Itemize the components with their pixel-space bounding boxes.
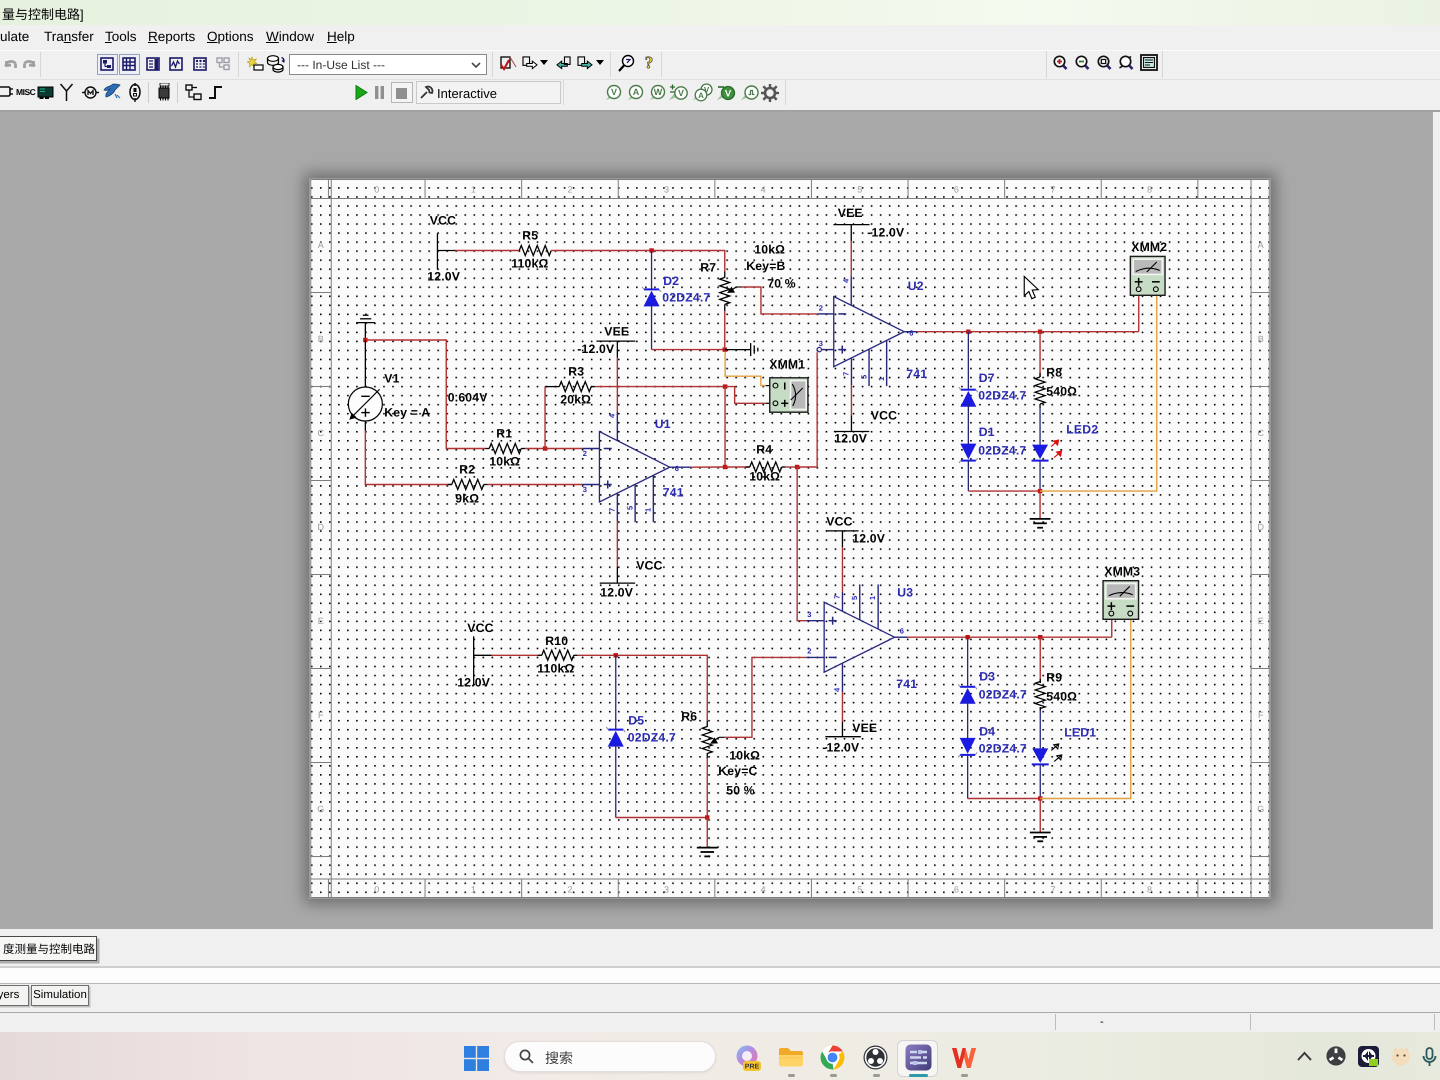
node J8 (D7 tap) [966, 330, 970, 334]
wire J5 down to J6 [724, 387, 726, 467]
svg-text:2: 2 [567, 185, 572, 195]
svg-text:V1: V1 [384, 371, 399, 385]
power VCC (R10 rail) [474, 636, 492, 685]
svg-text:5: 5 [625, 506, 634, 510]
svg-text:PRE: PRE [745, 1064, 760, 1071]
wire D1 to J10 rail [968, 490, 1040, 492]
svg-text:R6: R6 [681, 709, 697, 723]
power VCC (U3) [826, 531, 859, 547]
wire J5 to XMM1 plus [725, 387, 766, 404]
svg-text:VCC: VCC [871, 408, 897, 422]
wire U2 out rail [917, 331, 1139, 333]
svg-text:VCC: VCC [430, 213, 456, 227]
svg-text:F: F [318, 710, 324, 720]
svg-text:6: 6 [900, 627, 904, 636]
svg-text:D3: D3 [979, 669, 995, 683]
wire J10 to ground [1039, 491, 1041, 519]
svg-text:F: F [1258, 710, 1264, 720]
svg-text:02DZ4.7: 02DZ4.7 [979, 741, 1027, 755]
svg-text:3: 3 [664, 185, 669, 195]
wire D4 to J15 rail [968, 798, 1041, 800]
node J12 [705, 815, 709, 819]
svg-text:R5: R5 [522, 228, 538, 242]
source V1 [348, 340, 382, 431]
svg-text:1: 1 [643, 508, 652, 512]
svg-text:C: C [1258, 428, 1265, 438]
svg-text:1: 1 [471, 185, 476, 195]
wire VCC to U3 pin7 [841, 547, 843, 592]
resistor R1 [485, 444, 525, 454]
power VCC (U2) [834, 416, 869, 432]
wire R7 wiper to U2 pin2 [742, 287, 818, 314]
svg-text:C: C [318, 428, 325, 438]
power VCC (R5 rail) [437, 233, 455, 269]
svg-text:10kΩ: 10kΩ [754, 242, 785, 256]
svg-text:V: V [611, 87, 617, 97]
wire R10 to J11 and R6 [578, 655, 708, 721]
svg-text:110kΩ: 110kΩ [511, 256, 548, 270]
svg-text:8: 8 [1147, 185, 1152, 195]
zener diode D2 [642, 251, 661, 350]
svg-text:V: V [678, 88, 684, 98]
svg-text:7: 7 [841, 372, 850, 376]
svg-text:10kΩ: 10kΩ [489, 454, 520, 468]
svg-text:12.0V: 12.0V [427, 269, 461, 283]
svg-text:741: 741 [906, 367, 927, 381]
power VEE (U1) [596, 341, 635, 357]
svg-text:0.604V: 0.604V [448, 390, 488, 404]
node J13 (D3 tap) [965, 635, 969, 639]
svg-text:LED1: LED1 [1064, 725, 1096, 739]
node J15 [1038, 796, 1042, 800]
wire R1 to J2 [525, 448, 545, 450]
svg-text:12.0V: 12.0V [457, 675, 491, 689]
svg-text:D5: D5 [628, 713, 644, 727]
svg-text:E: E [1258, 616, 1264, 626]
svg-text:7: 7 [1050, 885, 1055, 895]
svg-text:2: 2 [819, 304, 823, 313]
svg-text:02DZ4.7: 02DZ4.7 [628, 730, 676, 744]
resistor R5 [519, 246, 551, 256]
potentiometer R6 [702, 721, 725, 758]
wire V1 to R2 [365, 431, 451, 485]
wire J2 to U1 pin2 [545, 448, 582, 450]
svg-text:R7: R7 [700, 260, 716, 274]
svg-text:Key=B: Key=B [746, 259, 785, 273]
op-amp U2 [817, 276, 917, 386]
svg-text:10kΩ: 10kΩ [749, 469, 780, 483]
wire J7 down to U3 pin3 [797, 467, 806, 621]
svg-text:D4: D4 [979, 724, 995, 738]
wire U3 out rail [908, 636, 1112, 638]
svg-text:7: 7 [1050, 185, 1055, 195]
svg-text:741: 741 [663, 485, 684, 499]
svg-text:540Ω: 540Ω [1046, 384, 1077, 398]
svg-text:70 %: 70 % [767, 276, 796, 290]
wire rail up to XMM2 plus [1138, 295, 1140, 331]
svg-text:12.0V: 12.0V [600, 585, 634, 599]
resistor R3 [545, 382, 595, 392]
svg-text:XMM2: XMM2 [1131, 240, 1167, 254]
wire VEE to U1 pin4 [616, 358, 618, 413]
zener diode D5 [606, 655, 625, 817]
wire R3 to J5 [595, 386, 725, 388]
svg-text:7: 7 [832, 595, 841, 599]
wire J7 to U2 pin3 [797, 352, 817, 467]
svg-text:VEE: VEE [852, 721, 877, 735]
svg-text:D1: D1 [979, 425, 995, 439]
zener diode D4 [958, 725, 977, 799]
potentiometer R7 [720, 272, 742, 312]
svg-text:W: W [654, 87, 663, 97]
resistor R4 [725, 462, 786, 472]
svg-text:12.0V: 12.0V [852, 531, 886, 545]
svg-text:1: 1 [868, 596, 877, 600]
wire J2 up to R3 [544, 387, 546, 449]
wire R6 bottom to J12 [706, 758, 708, 818]
wire R4 to J7 [786, 466, 797, 468]
svg-text:A: A [318, 240, 324, 250]
svg-text:A: A [633, 87, 640, 97]
op-amp U3 [806, 584, 908, 692]
op-amp U1 [582, 412, 691, 522]
ground GND4 (R6) [697, 847, 718, 849]
svg-text:A: A [1258, 240, 1264, 250]
resistor R8 [1035, 332, 1045, 408]
LED LED1 (off) [1032, 711, 1062, 799]
svg-text:2: 2 [567, 885, 572, 895]
wire U2 pin7 to VCC [850, 385, 852, 416]
svg-text:4: 4 [607, 413, 616, 418]
svg-text:U1: U1 [655, 417, 671, 431]
ground GND3 (U2 section) [1030, 518, 1051, 520]
svg-text:E: E [318, 616, 324, 626]
svg-text:A: A [698, 91, 704, 100]
node J11 (D5 tap) [614, 653, 618, 657]
svg-text:R9: R9 [1046, 670, 1062, 684]
wire R2 to U1 pin3 [488, 484, 582, 486]
node J4 (gnd junction) [723, 347, 727, 351]
resistor R9 [1035, 637, 1045, 711]
svg-text:VCC: VCC [467, 621, 493, 635]
svg-text:6: 6 [954, 885, 959, 895]
svg-text:Key=C: Key=C [718, 764, 757, 778]
svg-text:741: 741 [896, 677, 917, 691]
node J7 [795, 465, 799, 469]
node J1 (gnd/V1/wire junction) [363, 338, 367, 342]
svg-text:7: 7 [607, 508, 616, 512]
multimeter XMM3 [1103, 581, 1139, 620]
svg-text:D: D [318, 522, 325, 532]
svg-text:U2: U2 [908, 279, 924, 293]
node J14 (R9 tap) [1038, 635, 1042, 639]
svg-text:VEE: VEE [838, 206, 863, 220]
svg-text:4: 4 [832, 687, 841, 692]
svg-text:110kΩ: 110kΩ [537, 661, 574, 675]
svg-text:D2: D2 [663, 274, 679, 288]
wire U1 out to J6 [691, 466, 725, 468]
svg-text:9kΩ: 9kΩ [455, 491, 479, 505]
svg-text:4: 4 [761, 185, 766, 195]
svg-text:3: 3 [819, 339, 823, 348]
svg-text:2: 2 [583, 449, 587, 458]
node J5 (R3/XMM1/U1out node) [723, 384, 727, 388]
svg-text:-12.0V: -12.0V [577, 342, 615, 356]
node J10 [1038, 489, 1042, 493]
orange wire J4 to XMM1 minus [725, 352, 766, 386]
svg-text:1: 1 [877, 377, 886, 381]
svg-text:5: 5 [859, 375, 868, 379]
svg-text:540Ω: 540Ω [1046, 689, 1077, 703]
ground GND5 (U3 section) [1030, 832, 1051, 834]
mouse cursor [1024, 277, 1038, 299]
svg-text:5: 5 [857, 185, 862, 195]
multimeter XMM1 [766, 378, 808, 412]
node J9 (R8 tap) [1038, 330, 1042, 334]
svg-text:50 %: 50 % [726, 783, 755, 797]
wire VCC to R10 [492, 654, 542, 656]
wire D5 bottom to J12 [616, 817, 708, 819]
wire J12 to ground [706, 818, 708, 848]
svg-text:V: V [725, 89, 732, 100]
node J6 [723, 465, 727, 469]
svg-text:6: 6 [954, 185, 959, 195]
svg-text:R1: R1 [496, 426, 512, 440]
svg-text:02DZ4.7: 02DZ4.7 [662, 290, 710, 304]
svg-text:12.0V: 12.0V [834, 431, 868, 445]
svg-text:Key = A: Key = A [384, 405, 430, 419]
wire U3 pin4 to VEE [841, 692, 843, 722]
svg-text:G: G [317, 804, 324, 814]
svg-text:1: 1 [471, 885, 476, 895]
svg-text:02DZ4.7: 02DZ4.7 [978, 388, 1026, 402]
svg-text:6: 6 [675, 464, 679, 473]
svg-text:?: ? [645, 54, 654, 72]
svg-text:VCC: VCC [636, 558, 662, 572]
wire VCC to R5 [455, 250, 519, 252]
svg-text:U3: U3 [897, 585, 913, 599]
svg-text:02DZ4.7: 02DZ4.7 [978, 443, 1026, 457]
svg-text:0: 0 [374, 885, 379, 895]
zener diode D7 [959, 332, 978, 425]
orange wire XMM2 minus to J10 [1040, 295, 1157, 491]
power VEE (U3) [825, 722, 861, 737]
svg-text:3: 3 [807, 610, 811, 619]
wire R6 wiper to U3 pin2 [725, 657, 807, 737]
orange wire XMM3 minus to J15 [1040, 619, 1131, 798]
svg-text:3: 3 [583, 485, 587, 494]
svg-text:XMM1: XMM1 [769, 357, 805, 371]
svg-text:5: 5 [850, 596, 859, 600]
power VEE (U2) [833, 225, 869, 241]
svg-text:B: B [1258, 334, 1264, 344]
zener diode D3 [958, 637, 977, 724]
svg-text:D7: D7 [979, 371, 995, 385]
svg-text:VCC: VCC [826, 514, 852, 528]
wire R7 bottom to J4 [724, 311, 726, 350]
svg-text:R4: R4 [756, 442, 772, 456]
svg-text:R3: R3 [568, 364, 584, 378]
svg-text:5: 5 [857, 885, 862, 895]
svg-text:4: 4 [761, 885, 766, 895]
wire U1 pin7 to VCC [616, 521, 618, 567]
multimeter XMM2 [1130, 256, 1165, 295]
wire D2 bottom rail to J4 [652, 349, 725, 351]
wire J1 to 0.604V corner [365, 340, 485, 449]
svg-text:-12.0V: -12.0V [867, 225, 905, 239]
svg-text:R2: R2 [459, 462, 475, 476]
ground GND1 (V1 top) [356, 315, 375, 340]
svg-text:R8: R8 [1046, 365, 1062, 379]
wire VEE to U2 pin4 [850, 241, 852, 276]
wire J15 to ground [1039, 799, 1041, 833]
svg-text:XMM3: XMM3 [1104, 564, 1140, 578]
svg-text:2: 2 [807, 647, 811, 656]
svg-text:LED2: LED2 [1066, 422, 1098, 436]
svg-text:G: G [1257, 804, 1264, 814]
svg-text:-12.0V: -12.0V [822, 740, 860, 754]
power VCC (U1) [600, 567, 635, 583]
svg-text:02DZ4.7: 02DZ4.7 [979, 687, 1027, 701]
svg-text:8: 8 [1147, 885, 1152, 895]
svg-text:10kΩ: 10kΩ [729, 748, 760, 762]
node J2 [543, 446, 547, 450]
LED LED2 (on) [1032, 408, 1062, 491]
svg-text:R10: R10 [545, 634, 568, 648]
zener diode D1 [959, 425, 978, 491]
wire R5 to J3 and R7 top [551, 251, 725, 272]
svg-text:0: 0 [374, 185, 379, 195]
node J3 (D2 tap) [649, 248, 653, 252]
svg-text:4: 4 [841, 278, 850, 283]
svg-text:VEE: VEE [604, 324, 629, 338]
svg-text:D: D [1258, 522, 1265, 532]
svg-text:B: B [318, 334, 324, 344]
svg-text:6: 6 [909, 329, 913, 338]
svg-text:3: 3 [664, 885, 669, 895]
svg-text:20kΩ: 20kΩ [560, 392, 591, 406]
resistor R10 [538, 650, 578, 660]
resistor R2 [448, 480, 488, 490]
ground GND2 (rotated, by R7) [725, 343, 758, 356]
wire rail up to XMM3 plus [1111, 619, 1113, 637]
